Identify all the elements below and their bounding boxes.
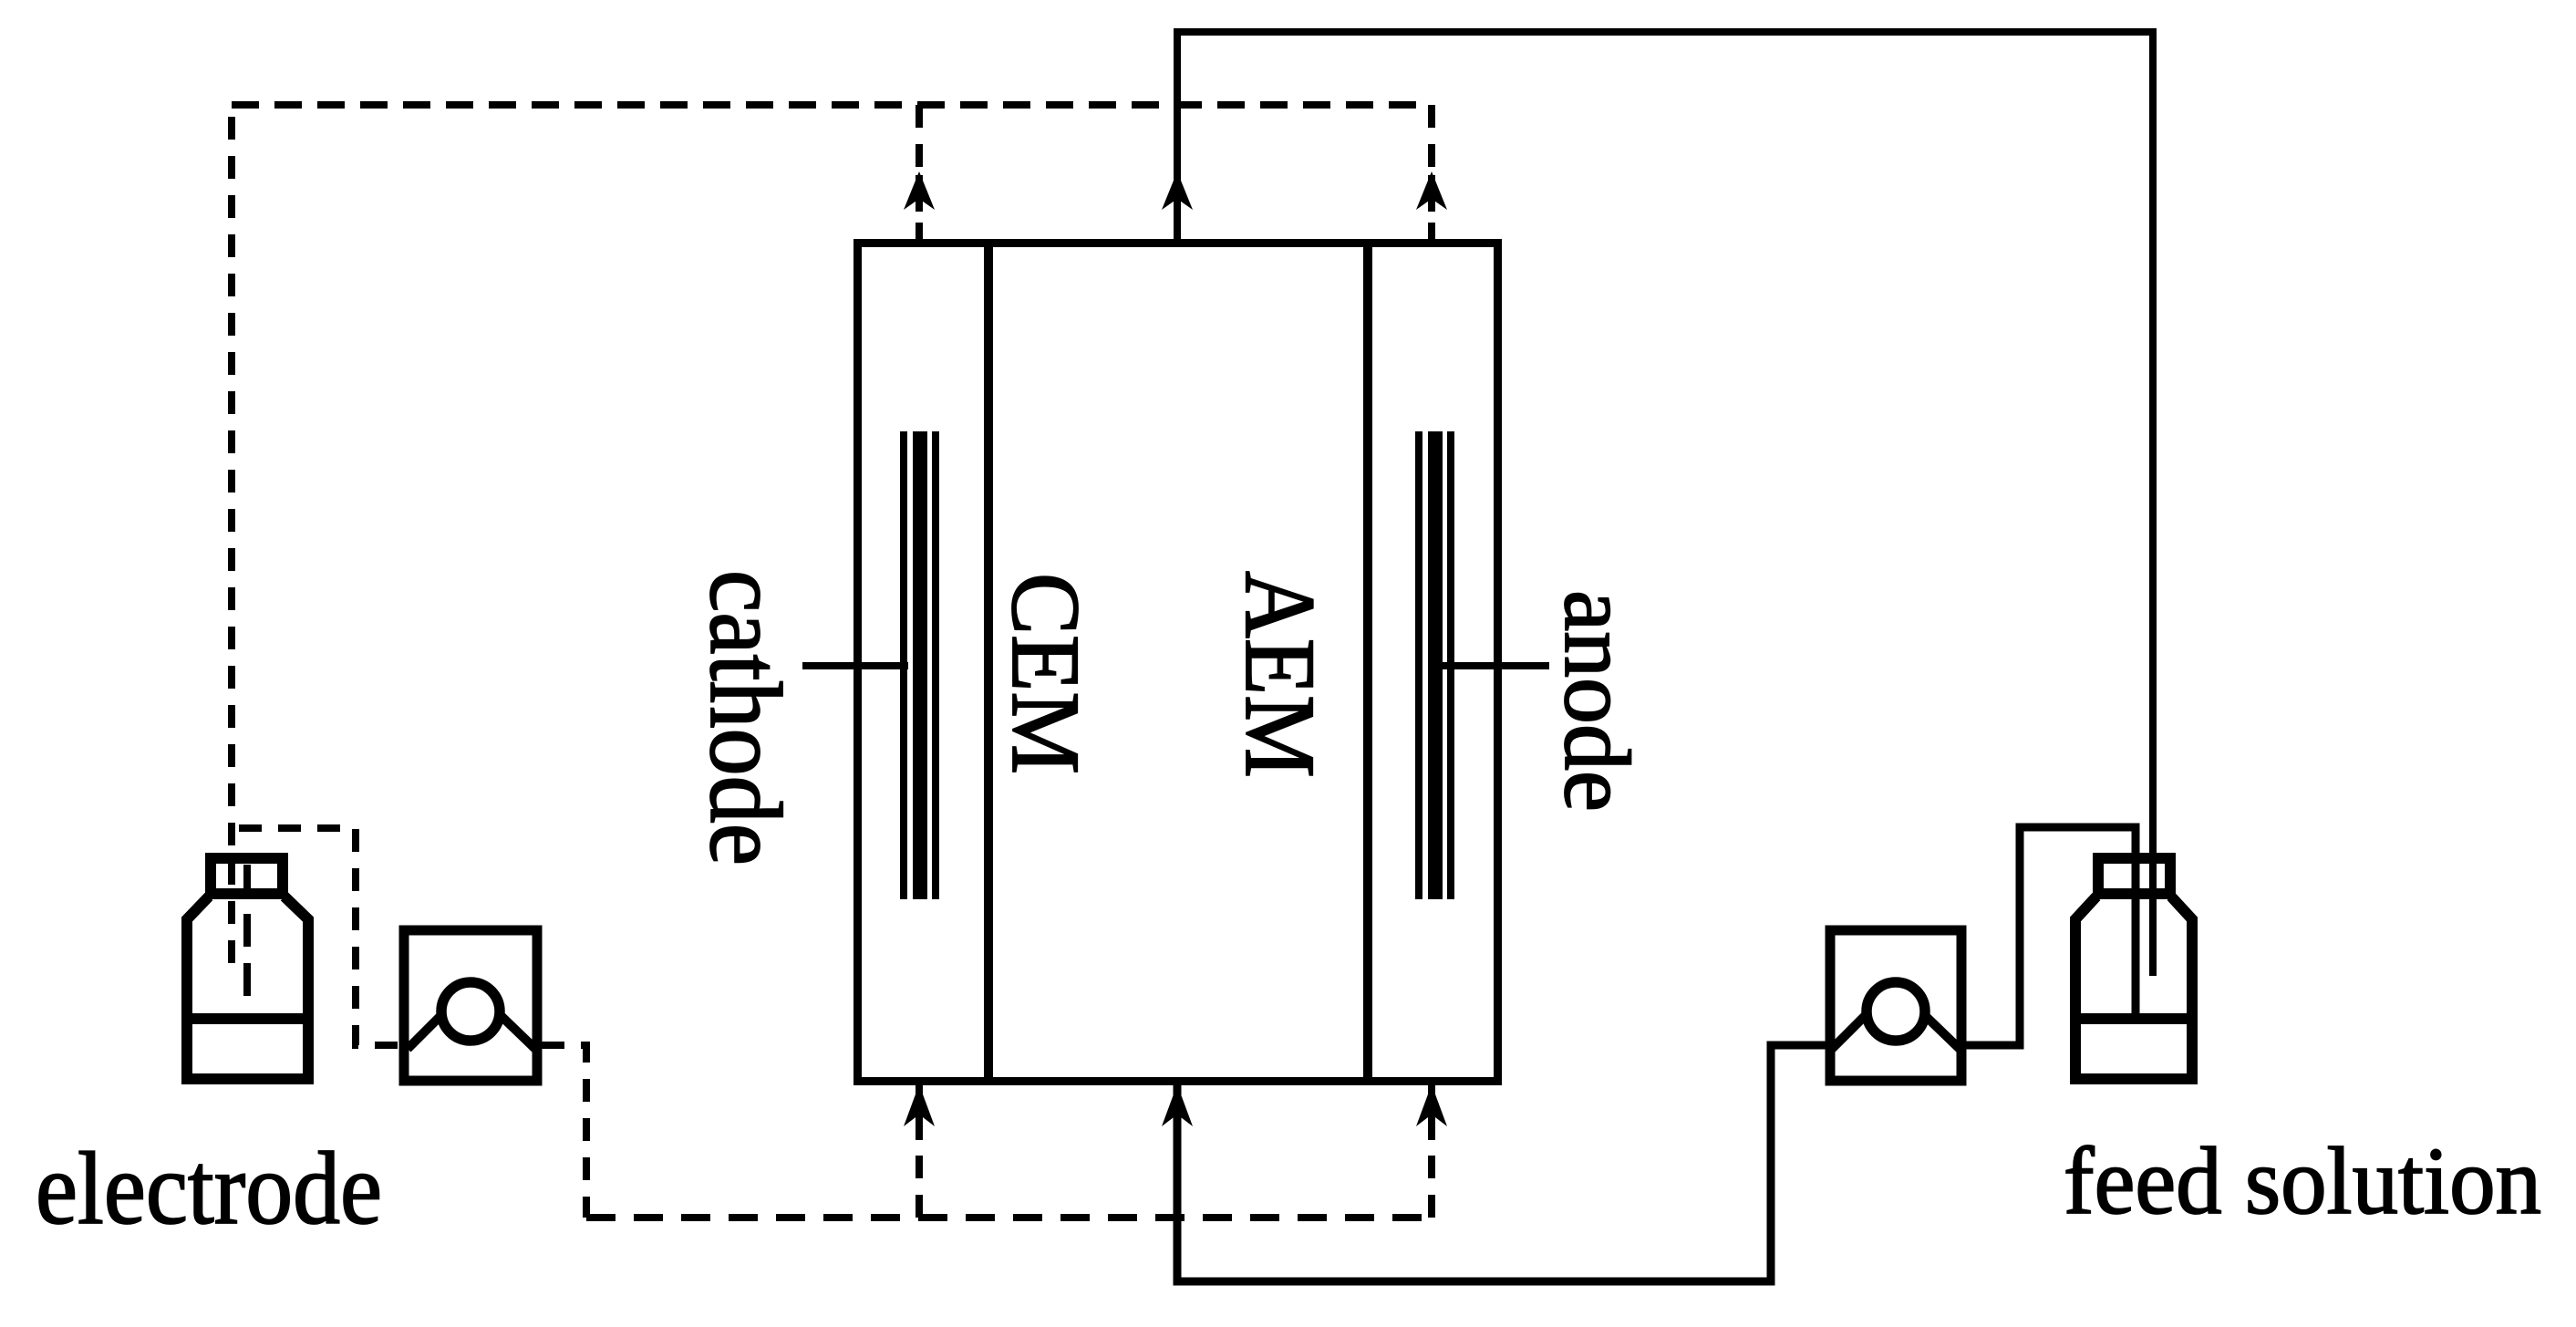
cathode electrode hatch [900, 431, 939, 899]
bottom-left dashed arrow line [916, 1085, 923, 1218]
left pump (electrode rinse) [404, 930, 537, 1081]
feed outlet pipe: cell top to feed bottle dip tube [1177, 32, 2153, 976]
svg-text:electrode: electrode [36, 1132, 382, 1246]
svg-text:anode: anode [1545, 590, 1649, 812]
electrode bottle outlet dashed pipe to left pump [239, 828, 399, 1045]
bottom-left arrowhead [904, 1084, 935, 1126]
top-left arrowhead [904, 171, 935, 210]
electrode bottle body [187, 897, 308, 1079]
AEM membrane line [1363, 239, 1372, 1085]
bottom-right arrowhead [1416, 1084, 1447, 1126]
electrode loop dashed downpipe into bottle [228, 105, 235, 976]
top-left dashed arrow line [916, 105, 923, 239]
right pump (feed) [1830, 930, 1961, 1081]
left pump outlet dashed pipe [542, 1045, 586, 1218]
top-right arrowhead [1416, 171, 1447, 210]
top-middle arrowhead (solid feed outlet) [1162, 171, 1193, 210]
bottom-right arrow stem [1428, 1082, 1435, 1140]
electrode bottle liquid level [187, 1013, 308, 1024]
feed bottle body [2075, 897, 2192, 1079]
anode lead wire [1442, 662, 1549, 669]
right pump outlet pipe to feed bottle [1966, 827, 2136, 1045]
feed bottle liquid level [2075, 1013, 2192, 1024]
CEM membrane line [984, 239, 993, 1085]
svg-text:CEM: CEM [991, 573, 1099, 774]
anode electrode hatch [1415, 431, 1454, 899]
electrode bottle cap [211, 858, 283, 894]
feed return pipe: cell bottom to right pump inlet [1177, 1045, 1826, 1281]
bottom-left arrow stem [916, 1082, 923, 1140]
svg-text:AEM: AEM [1225, 571, 1336, 778]
bottom-middle arrowhead (solid feed return) [1162, 1084, 1193, 1126]
electrode bottle dip tube (dashed) [243, 865, 251, 996]
bottom dashed pipe to cell [586, 1214, 1432, 1221]
top-left arrow stem [916, 175, 923, 212]
electrode loop top dashed pipe (horizontal) [232, 101, 1432, 109]
svg-text:feed solution: feed solution [2064, 1127, 2541, 1234]
feed bottle cap [2098, 858, 2170, 894]
top-right dashed arrow line [1428, 105, 1435, 239]
svg-text:cathode: cathode [688, 570, 802, 866]
cathode lead wire [802, 662, 908, 669]
top-right arrow stem [1428, 175, 1435, 212]
bottom-right dashed arrow line [1428, 1085, 1435, 1218]
cell outer frame [858, 244, 1498, 1082]
